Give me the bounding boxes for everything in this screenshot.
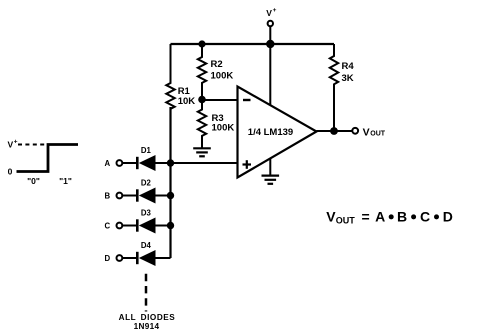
resistor R3 bbox=[198, 100, 235, 148]
svg-text:A: A bbox=[375, 209, 385, 225]
wire: comparator V+ pin bbox=[269, 44, 271, 106]
svg-text:D1: D1 bbox=[141, 146, 152, 155]
node: V+ junction dot on rail bbox=[266, 40, 274, 48]
ground symbol below op-amp bbox=[262, 176, 280, 184]
input waveform legend: step waveform bbox=[17, 145, 79, 172]
diode D4 group bbox=[104, 241, 170, 266]
svg-text:V: V bbox=[266, 8, 272, 18]
node: D1 junction dot bbox=[167, 159, 174, 166]
svg-text:D2: D2 bbox=[141, 179, 152, 188]
svg-text:ALL DIODES: ALL DIODES bbox=[119, 313, 176, 322]
wire: top supply rail bbox=[171, 43, 335, 45]
diode D3 group bbox=[104, 209, 170, 234]
svg-text:100K: 100K bbox=[212, 123, 235, 134]
V+ supply terminal circle bbox=[268, 21, 273, 26]
svg-text:V: V bbox=[363, 126, 370, 138]
svg-text:C: C bbox=[420, 209, 430, 225]
svg-text:B: B bbox=[104, 191, 110, 200]
svg-text:OUT: OUT bbox=[336, 216, 356, 226]
diode D2 group bbox=[104, 179, 170, 204]
node: D2 junction dot bbox=[167, 192, 174, 199]
equation VOUT = A.B.C.D bbox=[326, 209, 453, 226]
resistor R2 bbox=[198, 44, 234, 100]
svg-text:A: A bbox=[104, 159, 110, 168]
dashed leader below D4 bbox=[145, 274, 148, 312]
node: output junction dot bbox=[330, 127, 338, 135]
svg-text:=: = bbox=[362, 209, 370, 225]
diode D1 group bbox=[104, 146, 170, 171]
svg-text:+: + bbox=[14, 139, 18, 146]
svg-text:100K: 100K bbox=[211, 71, 234, 82]
wire: comparator ground pin bbox=[269, 158, 271, 175]
svg-text:+: + bbox=[273, 7, 277, 14]
output label VOUT bbox=[363, 126, 386, 138]
node: inverting input junction dot (R2/R3) bbox=[198, 96, 206, 104]
node: D3 junction dot bbox=[167, 222, 174, 229]
svg-text:D: D bbox=[443, 209, 453, 225]
svg-text:V: V bbox=[8, 140, 14, 150]
wire: non-inverting input row (A row to op-amp) bbox=[171, 162, 238, 164]
svg-text:C: C bbox=[104, 221, 110, 230]
svg-text:"0": "0" bbox=[27, 176, 40, 186]
svg-text:0: 0 bbox=[8, 167, 13, 177]
waveform label V+ bbox=[8, 139, 18, 150]
svg-text:R4: R4 bbox=[342, 61, 355, 72]
svg-text:D3: D3 bbox=[141, 209, 152, 218]
svg-text:D: D bbox=[104, 254, 110, 263]
svg-text:10K: 10K bbox=[178, 96, 196, 107]
svg-text:V: V bbox=[326, 209, 336, 225]
svg-text:3K: 3K bbox=[342, 73, 354, 84]
svg-text:B: B bbox=[397, 209, 407, 225]
svg-text:R2: R2 bbox=[211, 59, 223, 70]
minus input sign bbox=[243, 99, 251, 101]
svg-text:D4: D4 bbox=[141, 241, 152, 250]
ground symbol below R3 bbox=[193, 148, 211, 156]
wire V+ terminal to top rail bbox=[269, 27, 271, 44]
plus input sign bbox=[243, 160, 252, 169]
svg-text:1/4 LM139: 1/4 LM139 bbox=[248, 127, 293, 138]
svg-text:1N914: 1N914 bbox=[134, 322, 160, 331]
svg-text:OUT: OUT bbox=[370, 130, 386, 137]
input waveform legend: V+ level dashed line bbox=[18, 144, 46, 146]
wire: diode bus (vertical) bbox=[169, 107, 171, 258]
op-amp U1 1/4 LM139 bbox=[238, 87, 317, 178]
svg-text:"1": "1" bbox=[59, 176, 72, 186]
node: R2 top junction dot bbox=[198, 40, 205, 47]
V+ supply terminal label bbox=[266, 7, 276, 18]
wire: output bbox=[317, 130, 353, 132]
resistor R1 bbox=[166, 44, 195, 109]
output terminal circle bbox=[352, 128, 358, 134]
resistor R4 bbox=[330, 44, 355, 131]
wire: node to inverting input bbox=[202, 99, 238, 101]
